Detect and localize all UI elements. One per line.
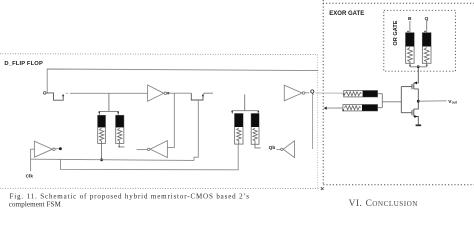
transistor PT1 (pass switch) [46, 93, 63, 100]
node OR output junction dot [417, 65, 420, 68]
wire OR gate output bar [410, 66, 427, 68]
D_FLIP FLOP enclosure box (dotted) [0, 54, 320, 189]
wire Q to XOR memristor (faint) [315, 92, 343, 94]
wire join and gate tap [381, 94, 383, 108]
node arrow at XOR lower input [324, 107, 327, 110]
memristor M1 [98, 115, 106, 143]
svg-text:Clk: Clk [26, 173, 34, 178]
transistor Q1 PMOS [401, 86, 412, 88]
transistor Q2 NMOS [401, 112, 412, 114]
op-amp U2 inverter (left pointing) [150, 141, 167, 158]
svg-text:Q: Q [425, 16, 429, 22]
wire U2 output [137, 149, 148, 151]
wire to M6 [327, 107, 343, 109]
svg-text:D_FLIP FLOP: D_FLIP FLOP [4, 61, 43, 67]
memristor M3 [235, 114, 243, 145]
op-amp U5 clock inverter [34, 141, 52, 157]
svg-text:complement FSM: complement FSM [9, 201, 62, 209]
wire Qb to U4 [276, 149, 280, 151]
svg-text:Qb: Qb [269, 145, 276, 151]
wire PT2 gate to Clk line [194, 100, 198, 160]
wire Q drop [312, 95, 314, 149]
svg-text:VI.CONCLUSION: VI.CONCLUSION [349, 199, 419, 209]
node marks OR memristor terminals [407, 31, 408, 32]
svg-text:Fig. 11. Schematic of proposed: Fig. 11. Schematic of proposed hybrid me… [10, 192, 250, 200]
svg-text:Q: Q [310, 89, 315, 95]
svg-text:EXOR GATE: EXOR GATE [329, 11, 364, 17]
wire M5 right lead [378, 93, 383, 95]
node D input (circle) [43, 92, 46, 95]
svg-text:B: B [408, 16, 412, 22]
memristor M5 (horizontal, top) [344, 91, 378, 97]
wire CMOS gate rail [400, 87, 402, 113]
node corner mark [321, 187, 324, 190]
wire M6 right lead [378, 107, 383, 109]
node Clk junction dot [100, 158, 103, 161]
op-amp U4 inverter (left pointing) [283, 141, 294, 158]
node Vout junction dot [417, 100, 420, 103]
wire Clk line1 [31, 159, 194, 160]
memristor M8 (OR gate right) [426, 21, 428, 33]
memristor M4 [251, 114, 259, 145]
op-amp U3 inverter [284, 85, 302, 101]
EXOR GATE enclosure box (dashed) [323, 0, 474, 185]
wire M1 bottom lead [101, 143, 103, 159]
node junction after U1 [167, 92, 169, 94]
memristor M6 (horizontal, bottom) [343, 105, 378, 111]
memristor M7 (OR gate left) [409, 21, 411, 33]
wire to Vout [418, 100, 446, 102]
wire Clkb line2 [61, 144, 239, 170]
svg-text:OR GATE: OR GATE [393, 20, 399, 45]
wire Clk input rail [31, 149, 35, 171]
OR GATE enclosure box (dashed) [384, 10, 456, 71]
wire: top feedback line [47, 69, 318, 93]
op-amp U1 inverter [148, 85, 164, 101]
wire U1 output to PT2 [167, 92, 192, 94]
node Clkb dot [59, 147, 62, 150]
transistor PT2 (pass switch) [191, 93, 203, 100]
wire M4 bottom stub to Qb [255, 144, 261, 148]
wire PT1 output to INV1 input [66, 92, 69, 94]
ground [416, 124, 422, 126]
wire M2 bottom stub [119, 143, 124, 147]
memristor M2 [116, 115, 124, 143]
memristor pair 1 common feed [108, 93, 110, 111]
wire tap down to U2 input [168, 93, 175, 147]
memristor pair 2 common feed [244, 94, 246, 110]
